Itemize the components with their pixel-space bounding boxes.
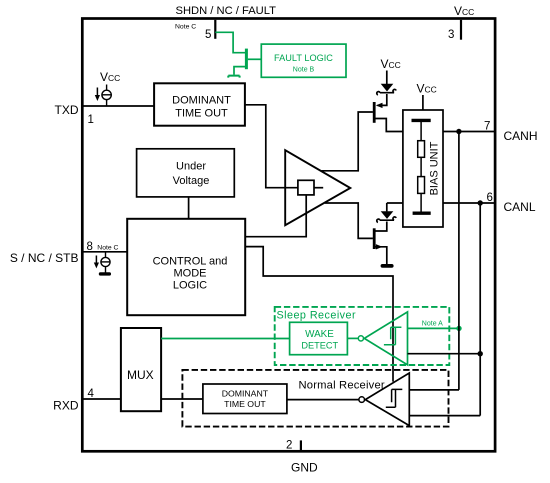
pin 2 stub [300,440,302,450]
control and mode logic box U5 [127,219,245,315]
hysteresis symbol (U8) [386,389,403,407]
dominant time out box U3 [154,83,245,125]
wire CANL right segment [443,202,494,204]
svg-text:Under: Under [176,161,206,173]
wire Vcc to bias unit [422,95,424,110]
ground (NMOS source) [381,264,394,268]
sleep receiver comparator U10 (green) [364,312,407,365]
MUX box U6 [121,328,161,411]
svg-text:CANH: CANH [504,129,538,143]
under voltage box U4 [137,149,235,197]
current source I1 arrow [96,88,98,97]
wire I2 to ground [105,267,107,273]
wire Q1 source (green) [234,67,245,75]
current sink I2 arrow [95,256,97,264]
wire U4 to control logic [188,197,190,219]
wire CANH right segment [443,131,494,133]
ground (green) [228,76,239,78]
svg-text:Note A: Note A [422,321,443,328]
wire CANL left segment [387,202,403,204]
wire driver to PMOS gate [322,112,373,171]
svg-text:CONTROL and: CONTROL and [153,256,228,268]
svg-text:Note C: Note C [175,24,196,31]
svg-text:S / NC / STB: S / NC / STB [10,251,79,265]
wire pin8 to I2 [105,252,107,258]
wire Q2 drain to CANH [376,119,403,132]
wire CANL diode [386,203,388,211]
wire control to receiver enable [245,247,393,382]
bias top rail [412,119,431,122]
diode D1 (schottky) [381,84,394,92]
dominant time out box U7 [203,384,287,414]
normal receiver dashed box [182,370,448,427]
node (CANH dot) [456,129,461,134]
hysteresis symbol (U10 green) [384,327,402,345]
node (green dot CANH sense) [456,326,461,331]
green wire U10 input CANH [408,327,460,329]
green wire wake detect to sleep comparator [347,337,358,339]
transistor Q2 bar [373,102,376,123]
svg-text:VCC: VCC [417,82,437,96]
wire U8 input CANH [409,389,459,391]
transistor Q2 arrow [376,103,383,108]
normal receiver comparator U8 [365,373,409,426]
pin 5 stub [214,20,216,39]
wire TXD input [83,105,154,107]
wire STB input [83,251,127,253]
transistor Q3 arrow and source [376,247,387,264]
green wire MUX to wake detect [161,338,290,340]
transistor Q3 bar [373,228,376,249]
wake detect box U9 (green) [290,322,348,354]
wire control to driver square [245,195,306,237]
svg-text:Normal Receiver: Normal Receiver [299,380,385,392]
fault logic box U2 [261,44,346,77]
svg-text:2: 2 [286,440,292,452]
bias bottom rail [413,211,431,214]
wire RXD input [83,398,121,400]
svg-text:VCC: VCC [381,57,401,71]
svg-text:FAULT LOGIC: FAULT LOGIC [274,53,333,63]
svg-text:Voltage: Voltage [173,175,210,187]
svg-text:WAKE: WAKE [305,329,334,340]
svg-text:CANL: CANL [504,200,536,214]
wire Q1 gate to fault logic (green) [248,58,261,60]
svg-text:DETECT: DETECT [301,341,338,351]
wire U8 input CANL [409,415,480,417]
driver amplifier U11 [285,150,350,225]
node (CANL dot) [478,200,483,205]
svg-text:DOMINANT: DOMINANT [172,95,231,107]
ground (pin 8) [99,272,111,275]
svg-text:Sleep Receiver: Sleep Receiver [277,310,357,322]
svg-text:VCC: VCC [100,70,120,84]
svg-text:TIME OUT: TIME OUT [175,107,228,119]
svg-text:DOMINANT: DOMINANT [222,389,269,399]
outer border [82,19,495,452]
wire pin5 to fault transistor (green) [215,32,245,52]
diode D2 (schottky) [381,211,394,219]
bias unit box U12 [403,110,443,227]
sleep receiver dashed box (green) [275,307,450,365]
svg-text:1: 1 [88,114,94,126]
svg-text:5: 5 [205,29,211,41]
wire driver to NMOS gate [325,203,373,238]
svg-text:MUX: MUX [127,368,154,382]
wire MUX to dominant time out 2 [161,398,203,400]
wire U3 to driver input [245,105,298,188]
wire Vcc to diode D1 [386,71,388,85]
svg-text:MODE: MODE [174,268,207,280]
svg-text:6: 6 [487,192,493,204]
svg-text:VCC: VCC [454,4,474,18]
wire square to output stub [314,187,323,189]
wire CANL to receivers (vertical) [479,203,481,416]
svg-text:3: 3 [448,29,454,41]
resistor R1 [418,141,425,158]
wire D2 to NMOS drain [376,222,387,232]
pin 3 stub [460,20,462,40]
svg-text:BIAS UNIT: BIAS UNIT [428,141,440,195]
current sink I2 circle [101,257,110,266]
node (dot CANL sense) [478,351,483,356]
svg-text:Note C: Note C [97,245,118,252]
slope control square [298,180,314,195]
current source I1 circle [106,85,108,91]
svg-text:GND: GND [291,461,318,475]
bias connector wire [420,120,422,213]
svg-text:LOGIC: LOGIC [173,280,207,292]
svg-text:7: 7 [484,121,490,133]
svg-text:RXD: RXD [53,399,79,413]
wire U7 to receiver output [287,399,359,401]
svg-text:TIME OUT: TIME OUT [224,399,266,409]
wire I1 to TXD line [106,100,108,106]
svg-text:Note B: Note B [293,67,315,74]
wire D1 to PMOS source [378,94,387,105]
wire CANH to receivers (vertical) [458,132,460,390]
svg-text:SHDN / NC / FAULT: SHDN / NC / FAULT [176,5,277,17]
resistor R2 [418,177,425,194]
wire U10 input CANL [408,353,481,355]
transistor Q1 fault (green) [245,49,248,70]
svg-text:TXD: TXD [55,103,79,117]
